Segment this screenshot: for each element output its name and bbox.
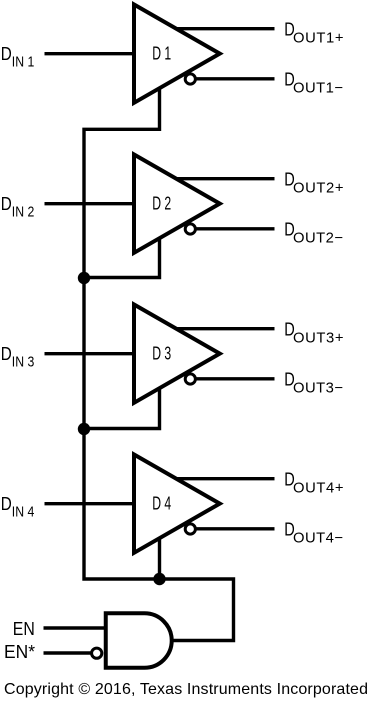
driver D4 [134,455,220,553]
svg-text:OUT2+: OUT2+ [293,180,344,196]
wire enable rail from D1 down to AND gate output [84,88,234,641]
svg-text:IN 1: IN 1 [12,55,35,71]
label DIN1 [1,44,35,71]
wire DOUT4- [186,527,275,530]
inversion bubble D3 [185,374,195,384]
wire DIN4 input [45,502,141,505]
svg-text:OUT1+: OUT1+ [293,30,344,46]
svg-text:D: D [1,44,12,64]
wire D4 enable stub [158,538,161,579]
svg-text:D 2: D 2 [152,194,171,214]
junction dot rail-D4 [153,573,165,585]
label DOUT1+ [284,20,343,47]
svg-text:D: D [1,194,12,214]
svg-text:EN*: EN* [4,641,35,662]
driver D1 [134,5,220,103]
inversion bubble EN* [92,648,102,658]
wire EN* input [44,651,93,654]
wire DOUT4+ [170,477,275,480]
driver D3 [134,305,220,403]
label DOUT4+ [284,470,343,497]
svg-text:IN 2: IN 2 [12,205,35,221]
label DIN3 [1,344,35,371]
junction dot rail-D2 [78,272,90,284]
wire DOUT3+ [170,327,275,330]
wire DOUT2+ [170,177,275,180]
junction dot rail-D3 [78,423,90,435]
label DOUT1- [284,70,343,97]
wire DOUT2- [186,227,275,230]
svg-text:OUT2−: OUT2− [293,230,343,246]
svg-text:OUT1−: OUT1− [293,80,343,96]
inversion bubble D4 [185,524,195,534]
wire DIN1 input [45,52,141,55]
svg-text:EN: EN [13,618,35,639]
svg-text:Copyright © 2016, Texas Instru: Copyright © 2016, Texas Instruments Inco… [4,681,368,698]
inversion bubble D1 [185,74,195,84]
svg-text:IN 3: IN 3 [12,355,35,371]
svg-text:D: D [1,344,12,364]
wire D3 enable stub [84,388,160,429]
wire DIN2 input [45,202,141,205]
wire EN input [44,626,111,629]
inversion bubble D2 [185,224,195,234]
svg-text:D 1: D 1 [152,44,171,64]
label DOUT3+ [284,320,343,347]
svg-text:D 4: D 4 [152,494,171,514]
label DOUT2+ [284,170,343,197]
svg-text:OUT4+: OUT4+ [293,480,344,496]
wire DOUT1- [186,77,275,80]
and-gate U1 [106,613,172,667]
svg-text:D: D [1,494,12,514]
label DOUT3- [284,370,343,397]
label DIN4 [1,494,35,521]
wire DOUT3- [186,377,275,380]
wire DIN3 input [45,352,141,355]
svg-text:OUT3−: OUT3− [293,380,343,396]
label DIN2 [1,194,35,221]
svg-text:OUT4−: OUT4− [293,530,343,546]
svg-text:OUT3+: OUT3+ [293,330,344,346]
wire DOUT1+ [170,27,275,30]
wire D2 enable stub [84,238,160,278]
svg-text:IN 4: IN 4 [12,505,35,521]
svg-text:D 3: D 3 [152,344,171,364]
driver D2 [134,155,220,253]
label DOUT2- [284,220,343,247]
label DOUT4- [284,520,343,547]
